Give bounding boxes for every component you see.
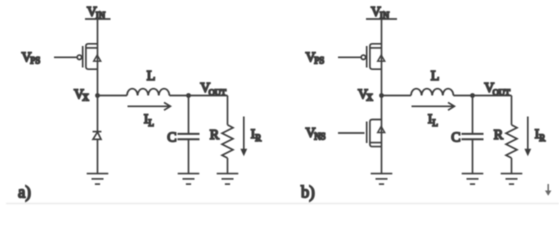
wire inductor to V_OUT and R (a) [169, 95, 227, 97]
svg-text:NS: NS [314, 131, 326, 141]
wire transistor to NMOS (b) [381, 96, 383, 147]
label R (b) [494, 128, 504, 143]
NMOS transistor gate bar (b) [366, 122, 368, 144]
svg-text:R: R [494, 128, 504, 143]
PMOS transistor gate bar (a) [82, 46, 84, 68]
scroll-down arrow glyph [545, 184, 551, 196]
inductor L coil (b) [411, 89, 453, 96]
PMOS transistor channel body (b) [370, 44, 382, 69]
svg-text:L: L [432, 118, 438, 128]
resistor R zigzag (a) [222, 125, 233, 158]
node V_OUT junction dot (a) [186, 93, 191, 98]
svg-text:X: X [82, 93, 89, 103]
svg-text:OUT: OUT [209, 87, 227, 97]
PMOS transistor body arrow (b) [378, 55, 385, 61]
wire NMOS to ground (b) [381, 147, 383, 174]
V_IN rail (b) [366, 18, 397, 20]
current arrow I_L (a) [128, 102, 171, 110]
ground under low-side (b) [371, 174, 393, 185]
faint divider line [6, 203, 559, 205]
wire resistor to ground (b) [511, 158, 513, 174]
label V_OUT (b) [484, 80, 510, 97]
label V_X (a) [74, 86, 89, 102]
svg-text:PS: PS [314, 56, 324, 66]
capacitor C plates (b) [462, 134, 484, 139]
label R (a) [210, 128, 220, 143]
wire to resistor R (a) [227, 96, 229, 125]
NMOS transistor source inner bar (b) [370, 142, 381, 144]
svg-text:C: C [167, 130, 176, 145]
freewheeling diode D (a) [93, 132, 102, 140]
wire V_X to inductor (b) [382, 95, 412, 97]
wire V_IN to transistor (a) [97, 19, 99, 96]
svg-text:b): b) [301, 183, 315, 202]
svg-text:OUT: OUT [493, 87, 511, 97]
svg-text:L: L [431, 69, 440, 84]
NMOS transistor gate wire (b) [338, 132, 365, 134]
label L (b) [431, 69, 440, 84]
svg-text:PS: PS [30, 56, 40, 66]
resistor R zigzag (b) [506, 125, 517, 158]
node V_IN label (b) [371, 4, 390, 21]
svg-text:L: L [148, 118, 154, 128]
label I_R (a) [251, 126, 261, 143]
wire V_IN to transistor (b) [381, 19, 383, 96]
PMOS transistor gate bar (b) [366, 46, 368, 68]
label V_PS (a) [22, 49, 41, 65]
wire resistor to ground (a) [227, 158, 229, 174]
svg-text:L: L [147, 69, 156, 84]
ground under capacitor (a) [178, 174, 200, 185]
inductor L coil (a) [127, 89, 169, 96]
PMOS transistor gate bubble (a) [77, 55, 81, 59]
svg-text:C: C [451, 130, 460, 145]
current arrow I_L (b) [412, 102, 455, 110]
node V_OUT junction dot (b) [470, 93, 475, 98]
wire inductor to V_OUT and R (b) [453, 95, 511, 97]
wire capacitor to ground (b) [472, 139, 474, 173]
node V_X junction dot (b) [379, 93, 384, 98]
NMOS transistor channel body (b) [370, 120, 382, 147]
ground under low-side (a) [87, 174, 109, 185]
current arrow I_R (a) [240, 117, 247, 157]
label V_X (b) [358, 86, 373, 102]
PMOS transistor channel body (a) [86, 44, 98, 69]
wire V_OUT to capacitor (b) [472, 96, 474, 134]
label C (b) [451, 130, 460, 145]
PMOS transistor source inner bar (a) [86, 47, 97, 49]
label V_OUT (a) [200, 80, 226, 97]
PMOS transistor gate bubble (b) [361, 55, 365, 59]
ground under resistor (a) [217, 174, 239, 185]
V_IN rail (a) [85, 18, 111, 20]
wire V_OUT to capacitor (a) [188, 96, 190, 134]
panel label b) [301, 183, 315, 202]
NMOS transistor body arrow (b) [378, 126, 385, 132]
capacitor C plates (a) [178, 134, 200, 139]
svg-text:X: X [366, 93, 373, 103]
PMOS transistor gate wire (b) [338, 56, 361, 58]
label V_PS (b) [306, 49, 325, 65]
node V_X junction dot (a) [95, 93, 100, 98]
PMOS transistor body arrow (a) [94, 55, 101, 61]
ground under resistor (b) [501, 174, 523, 185]
node V_IN label (a) [87, 4, 106, 21]
svg-text:R: R [210, 128, 220, 143]
wire transistor to diode (a) [97, 96, 99, 132]
label C (a) [167, 130, 176, 145]
PMOS transistor gate wire (a) [54, 56, 77, 58]
label I_L (b) [428, 111, 438, 128]
ground under capacitor (b) [462, 174, 484, 185]
svg-text:R: R [539, 133, 545, 143]
svg-text:a): a) [18, 183, 31, 202]
label I_L (a) [144, 111, 154, 128]
PMOS transistor source inner bar (b) [370, 47, 381, 49]
wire to resistor R (b) [511, 96, 513, 125]
panel label a) [18, 183, 31, 202]
current arrow I_R (b) [524, 117, 531, 157]
label L (a) [147, 69, 156, 84]
svg-text:R: R [255, 133, 261, 143]
label V_NS (b) [306, 125, 326, 141]
wire diode to ground (a) [97, 139, 99, 173]
wire V_X to inductor (a) [98, 95, 128, 97]
label I_R (b) [535, 126, 545, 143]
wire capacitor to ground (a) [188, 139, 190, 173]
